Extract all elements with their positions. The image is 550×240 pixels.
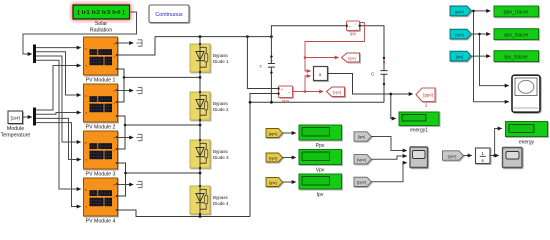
wire T2 demux2 to PV Module 2 [36, 113, 81, 115]
svg-text:vpv: vpv [282, 99, 290, 104]
wire current meas out to capacitor C [360, 26, 385, 71]
svg-text:Vpv: Vpv [316, 168, 325, 174]
wire T1 demux2 to PV Module 1 [36, 66, 81, 111]
wire PV1 plus to top bus [118, 37, 156, 55]
wire m1 to terminator [118, 42, 134, 44]
svg-text:Bypass: Bypass [213, 149, 229, 154]
svg-text:Ir: Ir [85, 141, 87, 145]
to workspace ipv_tracer [494, 51, 539, 62]
constant [1x4] Module Temperature [8, 111, 23, 124]
junction dots on diode string [199, 35, 202, 218]
wire PV4 plus to node3 [118, 173, 126, 196]
node A junction dots [123, 76, 127, 174]
wire T4 demux2 to PV Module 4 [36, 123, 81, 207]
svg-text:Temperature: Temperature [1, 133, 31, 139]
wire integrator to scope2 [490, 155, 499, 157]
integrator 1/s [476, 148, 491, 164]
svg-text:[ Ir1 Ir2 Ir3 Ir4 ]: [ Ir1 Ir2 Ir3 Ir4 ] [78, 10, 125, 16]
svg-text:-: - [114, 209, 115, 213]
powergui block Continuous [149, 5, 189, 23]
product block [314, 67, 328, 81]
svg-text:+: + [281, 88, 283, 92]
svg-text:Module: Module [7, 126, 24, 132]
svg-text:+: + [114, 195, 116, 199]
wire to display Vpv [283, 157, 296, 159]
svg-text:[ppv]: [ppv] [455, 9, 464, 14]
svg-text:+: + [114, 54, 116, 58]
wire m2 to terminator [118, 90, 134, 92]
label Bypass Diode 2 [213, 101, 229, 112]
label Bypass Diode 1 [213, 53, 229, 64]
svg-text:[ppv]: [ppv] [269, 131, 278, 136]
svg-text:Bypass: Bypass [213, 53, 229, 58]
wire ppv branch to scope [474, 11, 509, 102]
label Bypass Diode 4 [213, 195, 229, 206]
voltage measurement vpv [278, 86, 293, 98]
PV Module 4 [84, 178, 118, 216]
from tag [ppv] gray 2 [443, 151, 464, 160]
svg-text:[ipv]: [ipv] [358, 134, 365, 139]
svg-text:[ppv]: [ppv] [423, 93, 433, 98]
svg-text:Ir: Ir [85, 188, 87, 192]
svg-text:[vpv]: [vpv] [357, 157, 365, 162]
svg-text:+: + [349, 25, 351, 29]
terminator m1 [136, 40, 142, 46]
PV Module 1 [84, 37, 118, 75]
wire diode string vertical [199, 37, 201, 217]
goto tag [ppv] [416, 88, 435, 102]
svg-text:Diode 4: Diode 4 [213, 201, 229, 206]
svg-text:Diode 3: Diode 3 [213, 155, 229, 160]
svg-text:[vpv]: [vpv] [333, 89, 341, 94]
red wire i output to ipv goto and product [305, 23, 365, 72]
svg-text:ipv: ipv [350, 31, 356, 36]
terminator m2 [136, 87, 142, 93]
svg-text:-: - [114, 68, 115, 72]
wire V- to bottom rail riser [250, 94, 278, 217]
wire PV1 minus to node1 [118, 69, 201, 77]
wire m3 to terminator [118, 137, 134, 139]
svg-text:-: - [281, 94, 282, 98]
scope (top right, 2 inputs) [512, 75, 540, 112]
wire Ir4 demux1 to PV Module 4 [36, 60, 81, 189]
svg-text:PV Module 2: PV Module 2 [86, 125, 116, 131]
wire bottom rail [250, 101, 384, 103]
wire ipv to scope1 [371, 137, 406, 151]
label Solar Radiation [90, 21, 112, 34]
current measurement ipv [346, 21, 361, 31]
from tag [vpv] gray [354, 155, 371, 164]
junction dots tracer wires [472, 10, 481, 36]
bypass diode 3 [190, 139, 210, 169]
demux Demux1 (solar radiation) [33, 45, 36, 64]
from tag [ipv] gray [354, 132, 371, 141]
to workspace vpv_tracer [494, 29, 539, 40]
svg-text:T: T [85, 65, 87, 69]
svg-text:[ipv]: [ipv] [456, 54, 463, 59]
svg-text:2: 2 [425, 103, 428, 108]
capacitor C [381, 57, 388, 103]
scope1 gray [410, 147, 428, 168]
svg-text:energy: energy [519, 140, 535, 146]
svg-text:1: 1 [481, 151, 484, 156]
from tag [ipv] cyan [450, 51, 471, 61]
junction dot red vpv [304, 90, 307, 93]
wire top bus up to current measurement [271, 26, 345, 37]
junction dot ppv [389, 93, 392, 96]
svg-text:C: C [371, 72, 375, 78]
svg-text:-: - [114, 115, 115, 119]
svg-text:T: T [85, 159, 87, 163]
goto tag [ipv] [342, 53, 360, 62]
wire Ir1 demux1 to PV Module 1 [36, 47, 81, 49]
svg-text:Ppv: Ppv [316, 143, 325, 149]
junction dots top bus [246, 35, 273, 38]
bypass diode 1 [190, 43, 210, 73]
wire to integrator [463, 155, 471, 157]
wire top bus [155, 36, 271, 38]
from tag [ppv] yellow [266, 129, 283, 138]
display Ipv [299, 174, 342, 189]
wire constant to demux2 [23, 116, 32, 118]
wire to ipv_tracer [471, 55, 490, 57]
wire PV4 minus to bottom bus [118, 210, 251, 217]
svg-text:ppv_tracer: ppv_tracer [503, 10, 529, 16]
terminator m3 [136, 134, 142, 140]
svg-text:Bypass: Bypass [213, 195, 229, 200]
svg-text:Diode 1: Diode 1 [213, 59, 229, 64]
bypass diode 2 [190, 91, 210, 121]
svg-text:Continuous: Continuous [155, 12, 183, 18]
svg-text:[vpv]: [vpv] [455, 32, 463, 37]
svg-text:vpv_tracer: vpv_tracer [504, 32, 529, 38]
svg-text:[vpv]: [vpv] [269, 155, 277, 160]
wire to vpv_tracer [471, 33, 490, 35]
from tag [vpv] cyan [450, 29, 471, 39]
wire PV2 minus to node2 [118, 116, 201, 125]
svg-text:Ipv: Ipv [317, 192, 324, 198]
svg-text:-: - [114, 162, 115, 166]
to workspace ppv_tracer [494, 6, 539, 17]
wire vpv to scope1 [371, 156, 406, 159]
svg-text:T: T [85, 206, 87, 210]
capacitor c branch across string [268, 37, 275, 104]
display Ppv [299, 125, 342, 140]
terminator m4 [136, 181, 142, 187]
wire to display Ipv [283, 181, 296, 183]
wire Ir2 demux1 to PV Module 2 [36, 52, 81, 95]
wire product out to ppv goto and energy1 [328, 74, 413, 95]
PV Module 3 [84, 131, 118, 169]
PV Module 2 [84, 84, 118, 122]
svg-text:ipv_tracer: ipv_tracer [504, 54, 528, 60]
wire top bus to V+ [247, 37, 277, 89]
display Solar Radiation (selected, red glow) [71, 3, 132, 22]
display energy [506, 122, 548, 137]
svg-text:Solar: Solar [95, 21, 108, 27]
from tag [vpv] yellow [266, 153, 283, 162]
svg-text:PV Module 3: PV Module 3 [86, 172, 116, 178]
svg-text:Radiation: Radiation [90, 28, 112, 34]
from tag [ipv] yellow [266, 178, 283, 187]
demux Demux2 (temperature) [33, 108, 36, 126]
wire T3 demux2 to PV Module 3 [36, 118, 81, 159]
label Bypass Diode 3 [213, 149, 229, 160]
wire PV3 minus to node3 [118, 163, 201, 173]
junction dot red ipv [304, 56, 307, 59]
svg-text:PV Module 4: PV Module 4 [86, 219, 116, 225]
red wire branch to goto ipv [305, 57, 339, 59]
display Vpv [299, 150, 342, 165]
wire to energy display [495, 129, 502, 156]
svg-text:[1x4]: [1x4] [11, 116, 20, 121]
svg-text:[ipv]: [ipv] [348, 55, 355, 60]
goto tag [vpv] [327, 87, 345, 97]
svg-text:[ppv]: [ppv] [448, 153, 457, 158]
svg-text:[ppv]: [ppv] [357, 180, 366, 185]
display energy1 [399, 112, 439, 126]
junction dot integrator out [493, 154, 496, 157]
wire branch to energy1 [391, 94, 396, 119]
svg-text:T: T [85, 112, 87, 116]
svg-text:+: + [114, 148, 116, 152]
wire vpv branch to scope [480, 34, 509, 86]
junction dot rail left [249, 101, 252, 104]
wire display to demux1 [23, 12, 137, 54]
red wire branch to product in2 [305, 76, 311, 92]
wire to ppv_tracer [471, 10, 490, 12]
red wire v output to goto vpv [293, 91, 324, 93]
svg-text:c: c [260, 65, 263, 70]
svg-text:Diode 2: Diode 2 [213, 107, 229, 112]
svg-text:energy1: energy1 [410, 128, 428, 134]
svg-text:+: + [114, 101, 116, 105]
svg-text:Ir: Ir [85, 47, 87, 51]
svg-text:PV Module 1: PV Module 1 [86, 78, 116, 84]
svg-text:Ir: Ir [85, 94, 87, 98]
bypass diode 4 [190, 185, 210, 215]
svg-text:Bypass: Bypass [213, 101, 229, 106]
wire PV3 plus to node2 [118, 125, 126, 149]
wire to display Ppv [283, 132, 296, 134]
wire Ir3 demux1 to PV Module 3 [36, 56, 81, 142]
label Module Temperature [1, 126, 31, 139]
svg-text:[ipv]: [ipv] [269, 180, 276, 185]
from tag [ppv] gray [354, 177, 371, 186]
wire PV2 plus to node1 [118, 77, 125, 102]
scope2 gray [503, 148, 523, 168]
from tag [ppv] cyan [450, 6, 471, 16]
wire m4 to terminator [118, 184, 134, 186]
wire ppv to scope1 [371, 163, 406, 182]
